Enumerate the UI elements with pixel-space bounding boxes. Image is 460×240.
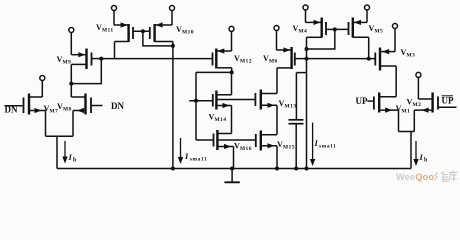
svg-text:VM15: VM15	[277, 140, 295, 150]
wire VM10 drain-gate node down to ground rail	[172, 42, 174, 169]
transistor VM13	[260, 90, 262, 110]
output terminal above VM7 drain	[40, 76, 45, 81]
wire VM4 drain node down to rail	[306, 37, 308, 168]
power terminal above VM10	[170, 6, 175, 11]
node VM4 gate-drain tie	[326, 28, 349, 30]
transistor VM8	[84, 94, 86, 115]
wire VM7 source down	[45, 111, 47, 137]
svg-text:I: I	[419, 152, 424, 162]
wire VM6 gate bus to VM3 gate	[296, 58, 376, 60]
power terminal (VDD) above VM9	[69, 28, 74, 33]
transistor VM6	[290, 47, 292, 69]
svg-text:VM16: VM16	[234, 142, 252, 152]
svg-text:sma11: sma11	[319, 144, 336, 150]
wire VM14 drain up to VM12 drain node	[231, 72, 233, 94]
input label DN	[91, 105, 103, 107]
svg-text:VM6: VM6	[263, 54, 278, 64]
node VM11-VM10 shared gate	[133, 30, 150, 32]
wire VM15 source down to rail	[276, 146, 278, 169]
svg-text:b: b	[73, 158, 77, 164]
power terminal above VM11	[112, 6, 117, 11]
svg-text:VM10: VM10	[176, 25, 194, 35]
svg-text:VM5: VM5	[369, 24, 384, 34]
output terminal above VM2 drain	[416, 72, 421, 77]
transistor VM4	[321, 18, 323, 38]
svg-text:b: b	[424, 158, 428, 164]
power terminal above VM12	[229, 26, 234, 31]
transistor VM11	[127, 24, 129, 42]
svg-text:UP: UP	[442, 96, 454, 106]
power terminal above VM4	[303, 5, 308, 10]
transistor VM1	[378, 93, 380, 113]
input label UPbar	[438, 106, 457, 108]
svg-text:DN: DN	[111, 101, 124, 111]
transistor VM15	[260, 131, 262, 151]
bottom rail	[57, 168, 411, 170]
svg-text:WeeQoo: WeeQoo	[396, 172, 434, 182]
transistor VM5	[352, 18, 354, 38]
transistor VM7	[23, 98, 25, 114]
svg-text:I: I	[184, 151, 189, 161]
wire VM11 drain to gate bus	[114, 42, 116, 59]
svg-text:VM13: VM13	[279, 99, 297, 109]
power terminal above VM5	[365, 5, 370, 10]
wire VM9 drain down to VM8 drain	[70, 64, 72, 97]
wire UP-pair tail	[399, 131, 415, 133]
current arrow and label Ib (right)	[415, 141, 417, 160]
svg-text:VM14: VM14	[209, 113, 227, 123]
current arrow and label Ib (left)	[64, 141, 66, 158]
wire VM16 bulk to VM15 gate	[217, 139, 255, 141]
current arrow and label Ismall (right)	[312, 123, 314, 160]
capacitor C1	[289, 119, 304, 121]
watermark WeeQoo weiku	[396, 171, 458, 183]
transistor VM9	[85, 49, 87, 70]
node VM12 drain	[231, 68, 233, 73]
transistor VM3	[379, 48, 381, 71]
node VM9 gate-drain tie	[99, 57, 103, 61]
svg-text:VM11: VM11	[96, 23, 114, 33]
power terminal above VM3	[393, 24, 398, 29]
transistor VM2	[431, 93, 433, 113]
svg-text:VM3: VM3	[401, 48, 416, 58]
current arrow and label Ismall (left)	[180, 138, 182, 158]
wire DN-pair tail	[46, 135, 74, 137]
wire VM8 source down	[72, 111, 74, 137]
svg-text:VM12: VM12	[234, 54, 252, 64]
svg-text:I: I	[314, 138, 319, 148]
transistor VM16	[216, 130, 218, 150]
svg-text:I: I	[68, 152, 73, 162]
svg-text:VM8: VM8	[57, 102, 72, 112]
wire VM2 source down	[413, 110, 415, 131]
wire VM6 drain down to VM13 drain	[276, 68, 278, 94]
svg-text:VM4: VM4	[293, 24, 308, 34]
wire VM13 source down to VM15 drain	[276, 105, 278, 134]
wire VM14 source down to VM16 drain	[231, 106, 233, 134]
wire VM16 source down to ground node	[233, 147, 235, 169]
wire gate bus VM9-VM12	[92, 58, 102, 60]
transistor VM14	[215, 91, 217, 110]
transistor VM12	[215, 49, 217, 69]
svg-text:VM9: VM9	[57, 55, 72, 65]
power terminal above VM6	[274, 26, 279, 31]
wire VM14 bulk to VM13 gate	[216, 99, 255, 101]
wire VM1 source down	[398, 110, 400, 131]
ground	[230, 167, 234, 171]
wire VM3 drain down to VM1 drain	[395, 66, 397, 97]
svg-text:sma11: sma11	[190, 157, 207, 163]
transistor VM10	[153, 24, 155, 42]
wire VM5 drain down to VM3 gate wire	[368, 37, 370, 58]
svg-text:UP: UP	[356, 96, 368, 106]
